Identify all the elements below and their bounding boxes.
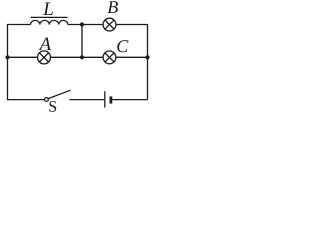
inductor L1 coil [31,20,68,24]
node: row2 right junction [145,55,149,59]
node: row2 mid junction [80,55,84,59]
wire: battery to bottom-right corner [112,99,147,101]
label L [43,3,53,15]
wire: row2 left (left wire to lamp A) [8,56,38,58]
wire: switch contact to battery [70,99,105,101]
wire: left vertical side [8,25,45,100]
label B [107,1,117,13]
inductor core bar [31,16,68,18]
wire: coil to mid node [68,24,103,26]
switch S [45,90,71,101]
label S [49,101,56,112]
lamp A [38,51,51,64]
wire: lamp A to mid node row2 [51,56,104,58]
node: top mid junction [80,22,84,26]
label C [117,40,128,52]
lamp B [103,18,116,31]
wire: mid vertical (top node to row2 node) [81,25,83,58]
label A [38,37,51,50]
lamp C [103,51,116,64]
node: row2 left junction [5,55,9,59]
battery [105,91,111,107]
wire: lamp C to right wire [116,56,148,58]
wire: lamp B to top-right corner, right vertical down [116,25,148,100]
